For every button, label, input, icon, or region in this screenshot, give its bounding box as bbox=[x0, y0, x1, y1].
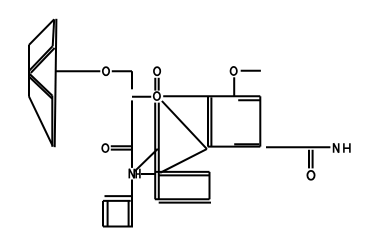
wire: rect right edge bbox=[209, 172, 211, 199]
wire: left vertical bond bbox=[28, 45, 30, 97]
diagonal vertex B to junction C bbox=[160, 149, 207, 173]
atom N of NH1 bbox=[129, 169, 134, 179]
right ring bottom edge bbox=[208, 146, 260, 148]
bond to O4 bbox=[132, 96, 151, 98]
bond O5 stem down to ring bbox=[233, 77, 235, 95]
O3=O4 double bond bbox=[154, 78, 156, 91]
wire: inner vertical bond bottom bbox=[51, 96, 53, 147]
right ring top edge long bond bbox=[163, 95, 260, 97]
wire: square right inner edge bbox=[128, 201, 130, 227]
right ring left edge bbox=[207, 96, 209, 146]
wire: rect top inner line bbox=[159, 174, 210, 176]
wire: square bottom edge bbox=[103, 226, 133, 228]
diagonal O4 to vertex B bbox=[162, 101, 207, 149]
wire: rect top edge bbox=[155, 171, 210, 173]
atom O3 (top) bbox=[154, 67, 160, 75]
atom O1 (ether) bbox=[103, 67, 109, 75]
bond NH1 down to square bbox=[131, 180, 133, 227]
bond corner down bbox=[131, 71, 133, 89]
wire: rect bottom edge bbox=[155, 198, 210, 200]
wire: short vertical bond (double-bond partner) bbox=[53, 19, 55, 46]
atom H of NH2 bbox=[344, 143, 350, 153]
wire: bottom diagonal bond bbox=[29, 97, 53, 147]
bond O5 to methyl bbox=[241, 70, 261, 72]
atom H of NH1 bbox=[136, 169, 140, 179]
right ring left inner double line bbox=[210, 98, 212, 147]
atom O5 (methoxy) bbox=[231, 67, 237, 75]
bond ring to NH2 bbox=[266, 146, 330, 148]
wire: square left outer edge bbox=[102, 201, 104, 227]
wire: square left inner edge bbox=[107, 201, 109, 227]
atom O4 (center) bbox=[154, 92, 160, 100]
right ring inner bottom double line bbox=[234, 143, 259, 145]
wire: top-left diagonal bond bbox=[29, 19, 54, 45]
bond ring to O1 bbox=[55, 70, 100, 72]
bond main vertical down to NH bbox=[131, 100, 133, 167]
wire: lower diagonal double bond line 1 bbox=[29, 73, 52, 95]
atom N of NH2 bbox=[334, 143, 339, 153]
right ring inner top double line bbox=[238, 99, 259, 101]
diagonal NH1 up-right bbox=[135, 149, 158, 171]
wire: upper diagonal double bond line 2 bbox=[31, 48, 55, 73]
long double bond below O4 / rectangle left edge bbox=[154, 103, 156, 200]
atom O6 (amide right) bbox=[307, 171, 314, 180]
bond O1 to corner bbox=[112, 70, 132, 72]
wire: long right vertical bond bbox=[55, 19, 57, 147]
wire: upper diagonal double bond line 1 bbox=[29, 46, 53, 71]
wire: lower diagonal double bond line 2 bbox=[29, 77, 52, 99]
bond NH1 to right bbox=[141, 173, 156, 175]
atom O2 (carbonyl left) bbox=[102, 144, 108, 152]
right ring right edge bbox=[259, 96, 261, 146]
C=O double bond down bbox=[308, 150, 310, 169]
wire: square extra top line bbox=[105, 195, 133, 197]
wire: square top edge bbox=[103, 200, 131, 202]
wire: rect bottom second line bbox=[159, 202, 211, 204]
carbonyl C=O (left amide) bbox=[111, 145, 132, 147]
